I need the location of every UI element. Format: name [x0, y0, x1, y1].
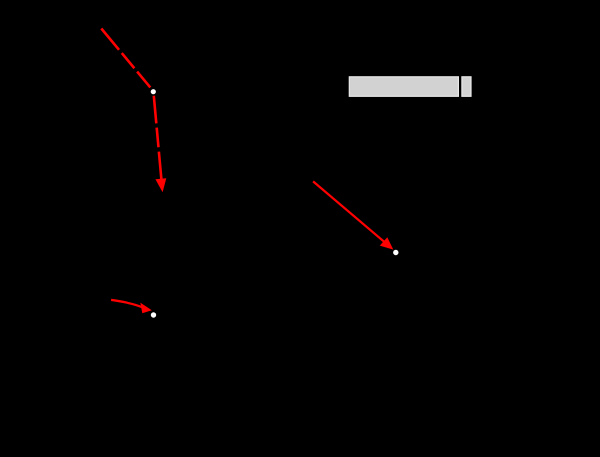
left annotation arrowhead	[140, 303, 152, 314]
dashed trajectory arrowhead	[155, 178, 166, 192]
gray bar tip	[462, 77, 471, 97]
right annotation arrowhead	[380, 237, 394, 249]
point marker at left arrow	[151, 312, 156, 317]
dashed trajectory arrow upper segment	[101, 29, 150, 88]
right annotation arrow shaft	[313, 181, 385, 242]
left annotation arrow shaft	[111, 300, 143, 308]
point marker at right arrow	[393, 250, 398, 255]
point marker at trajectory bend	[151, 89, 156, 94]
gray bar body	[349, 77, 458, 97]
dashed trajectory arrow lower segment	[154, 96, 162, 181]
